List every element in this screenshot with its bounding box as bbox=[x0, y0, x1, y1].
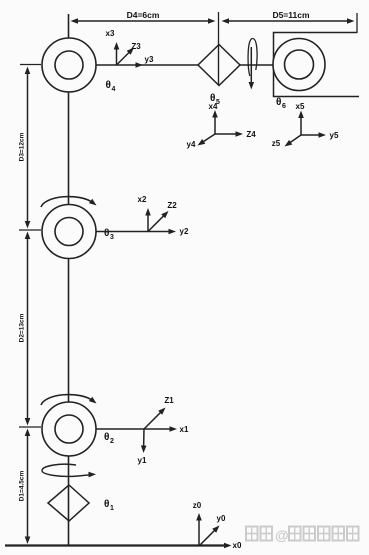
wire: main vertical link bbox=[68, 14, 70, 546]
rotation loop for joint &#952;1 bbox=[42, 464, 96, 477]
svg-text:x2: x2 bbox=[138, 195, 147, 204]
label Z3 bbox=[131, 42, 141, 51]
rotation arc above joint &#952;3 bbox=[41, 197, 97, 207]
label y3 bbox=[145, 55, 154, 64]
frame axis y1 bbox=[141, 429, 147, 453]
watermark &#30693;&#20046; @&#32534;&#31243;&#23567;&#38712;&#29579; bbox=[246, 527, 359, 544]
svg-text:θ: θ bbox=[106, 80, 111, 91]
dimension extension tick at joint 2 bbox=[19, 426, 41, 428]
svg-text:D5=11cm: D5=11cm bbox=[272, 10, 310, 20]
frame axis z5 bbox=[285, 135, 302, 147]
svg-text:Z2: Z2 bbox=[167, 201, 177, 210]
label y4 bbox=[187, 140, 196, 149]
dimension D4=6cm label bbox=[127, 10, 160, 20]
label &#952;6 bbox=[276, 97, 286, 110]
label Z4 bbox=[246, 130, 256, 139]
svg-text:z0: z0 bbox=[193, 501, 202, 510]
svg-text:y1: y1 bbox=[138, 456, 147, 465]
dimension D5=11cm label bbox=[272, 10, 310, 20]
frame axis x5 bbox=[298, 111, 304, 136]
svg-text:y4: y4 bbox=[187, 140, 196, 149]
svg-text:x5: x5 bbox=[296, 102, 305, 111]
frame axis Z2 bbox=[148, 211, 169, 232]
joint &#952;5 diamond (wrist) bbox=[198, 45, 240, 86]
svg-text:x1: x1 bbox=[180, 425, 189, 434]
label &#952;3 bbox=[104, 228, 114, 241]
dimension extension tick at x=218.5 bbox=[218, 12, 220, 45]
label x1 bbox=[180, 425, 189, 434]
dimension D2=13cm label bbox=[19, 313, 26, 342]
svg-text:Z4: Z4 bbox=[246, 130, 256, 139]
svg-text:x0: x0 bbox=[233, 541, 242, 550]
dimension extension tick at joint 4 bbox=[20, 64, 41, 66]
svg-text:Z3: Z3 bbox=[131, 42, 141, 51]
frame axis x3 bbox=[114, 42, 120, 65]
svg-text:y3: y3 bbox=[145, 55, 154, 64]
frame axis Z1 bbox=[144, 408, 166, 430]
svg-text:x4: x4 bbox=[209, 102, 218, 111]
dimension D3=12cm label bbox=[19, 132, 26, 161]
svg-text:θ: θ bbox=[276, 97, 281, 108]
wire: link joint &#952;2 to frame 1 bbox=[96, 428, 144, 430]
label &#952;4 bbox=[106, 80, 116, 93]
label x5 bbox=[296, 102, 305, 111]
axis arrow through rotation loop bbox=[249, 47, 255, 90]
joint &#952;4 (top revolute joint) bbox=[42, 38, 96, 92]
label x4 bbox=[209, 102, 218, 111]
label y5 bbox=[330, 131, 339, 140]
joint &#952;2 (bottom revolute joint) bbox=[42, 402, 96, 456]
svg-text:1: 1 bbox=[110, 505, 114, 512]
label y2 bbox=[180, 227, 189, 236]
svg-text:2: 2 bbox=[110, 438, 114, 445]
frame axis x2 bbox=[145, 208, 151, 232]
svg-text:θ: θ bbox=[104, 499, 109, 510]
frame axis y0 bbox=[199, 526, 220, 547]
joint &#952;3 (middle revolute joint) bbox=[42, 205, 96, 259]
dimension D5=11cm line bbox=[222, 18, 355, 24]
svg-text:4: 4 bbox=[112, 86, 116, 93]
svg-text:θ: θ bbox=[104, 432, 109, 443]
label y0 bbox=[217, 514, 226, 523]
label z0 bbox=[193, 501, 202, 510]
dimension D2=13cm line bbox=[25, 232, 31, 426]
label &#952;2 bbox=[104, 432, 114, 445]
frame axis Z4 bbox=[215, 131, 243, 137]
joint &#952;1 diamond (base swivel) bbox=[48, 485, 89, 521]
dimension extension tick at x=357 bbox=[356, 13, 358, 33]
frame axis x0 arrowhead bbox=[224, 543, 232, 549]
label Z2 bbox=[167, 201, 177, 210]
label x3 bbox=[106, 29, 115, 38]
svg-text:y5: y5 bbox=[330, 131, 339, 140]
label &#952;5 bbox=[210, 93, 220, 106]
frame axis x4 bbox=[212, 110, 218, 134]
frame axis y2 bbox=[148, 229, 176, 235]
svg-text:D3=12cm: D3=12cm bbox=[19, 132, 26, 161]
label x0 bbox=[233, 541, 242, 550]
end effector housing (open rectangle) bbox=[274, 33, 360, 97]
joint &#952;6 (end roll joint) bbox=[273, 39, 325, 91]
label x2 bbox=[138, 195, 147, 204]
ground line bbox=[5, 544, 225, 546]
label &#952;1 bbox=[104, 499, 114, 512]
rotation loop for joint &#952;6 axis bbox=[248, 39, 257, 77]
svg-text:x3: x3 bbox=[106, 29, 115, 38]
dimension D3=12cm line bbox=[25, 67, 31, 229]
wire: wrist link (diamond to end effector) bbox=[240, 64, 274, 66]
label Z1 bbox=[164, 396, 174, 405]
svg-text:D2=13cm: D2=13cm bbox=[19, 313, 26, 342]
frame axis z0 bbox=[196, 513, 202, 546]
dimension D1=4.5cm label bbox=[19, 471, 26, 502]
svg-text:z5: z5 bbox=[272, 139, 281, 148]
frame axis x1 bbox=[144, 426, 177, 432]
wire: link joint &#952;3 to frame 2 bbox=[96, 231, 148, 233]
dimension extension tick at joint 3 bbox=[19, 229, 41, 231]
dimension D4=6cm line bbox=[71, 18, 216, 24]
frame axis y3 arrowhead bbox=[136, 62, 144, 68]
svg-text:Z1: Z1 bbox=[164, 396, 174, 405]
svg-text:3: 3 bbox=[110, 234, 114, 241]
svg-text:D1=4.5cm: D1=4.5cm bbox=[19, 471, 26, 502]
svg-text:6: 6 bbox=[282, 103, 286, 110]
wire: upper arm link (joint &#952;4 to wrist) bbox=[96, 64, 198, 66]
svg-text:D4=6cm: D4=6cm bbox=[127, 10, 160, 20]
svg-text:θ: θ bbox=[104, 228, 109, 239]
label z5 bbox=[272, 139, 281, 148]
svg-text:y2: y2 bbox=[180, 227, 189, 236]
rotation arc above joint &#952;2 bbox=[41, 395, 97, 405]
frame axis y5 bbox=[301, 132, 326, 138]
label y1 bbox=[138, 456, 147, 465]
svg-text:@: @ bbox=[275, 527, 289, 543]
dimension D1=4.5cm line bbox=[25, 429, 31, 545]
frame axis y4 bbox=[198, 134, 216, 146]
frame axis Z3 bbox=[117, 48, 135, 66]
svg-text:y0: y0 bbox=[217, 514, 226, 523]
